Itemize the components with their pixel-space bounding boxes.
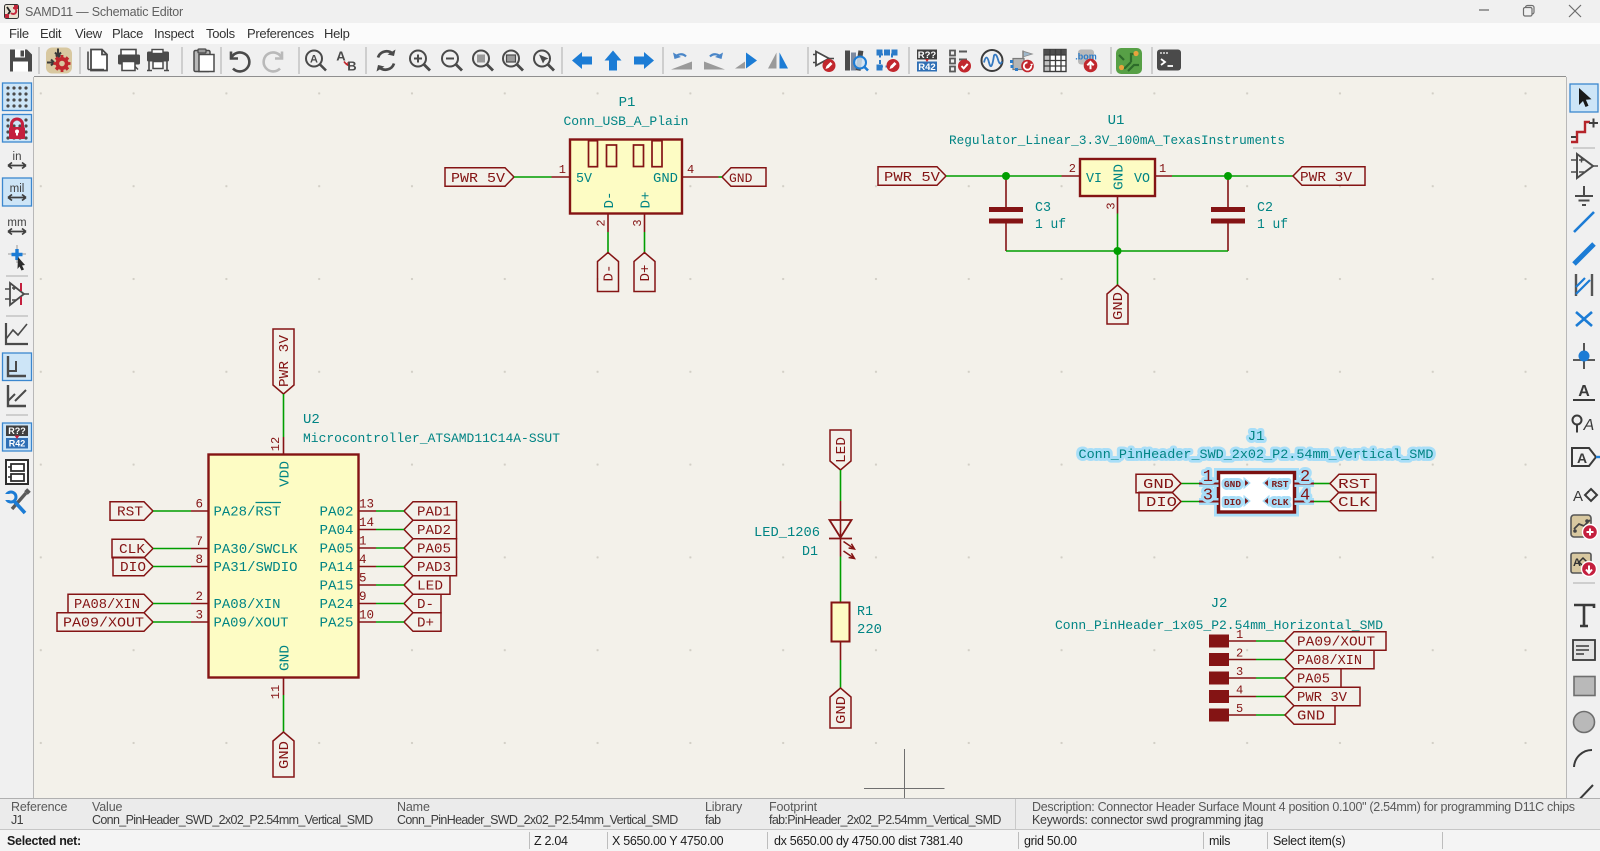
svg-text:A: A [1573,488,1583,505]
svg-text:A: A [1577,450,1587,466]
svg-text:R??: R?? [8,426,26,436]
svg-text:R42: R42 [918,62,935,73]
svg-text:A: A [310,54,318,66]
svg-text:in: in [13,151,22,163]
svg-text:R42: R42 [9,439,26,449]
svg-text:A: A [1583,417,1595,434]
svg-text:B: B [347,59,356,74]
svg-text:mm: mm [7,217,26,229]
svg-text:mil: mil [10,183,25,195]
svg-text:A: A [1578,383,1590,400]
